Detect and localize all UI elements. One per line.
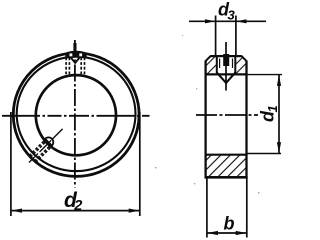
svg-text:b: b xyxy=(224,214,235,234)
d1 arrow top xyxy=(277,75,281,86)
bore top line + d1 extension xyxy=(205,73,247,75)
tapped hole opening arc at bore xyxy=(45,137,53,145)
top-left chamfer xyxy=(205,56,211,62)
b arrow left xyxy=(207,231,218,235)
second tapped hole axis centerline (225 deg) xyxy=(29,129,63,163)
screw hole left wall xyxy=(216,56,218,73)
ring outline left edge xyxy=(204,61,206,178)
bore bottom line + d1 extension xyxy=(205,154,247,156)
d3 arrow left (outside) xyxy=(205,19,216,23)
ring bottom face xyxy=(205,176,248,179)
horizontal centerline xyxy=(2,115,150,117)
upper section block hatching right xyxy=(235,56,246,74)
ring top face xyxy=(210,55,241,57)
d3 arrow right (outside) xyxy=(236,19,247,23)
hidden thread hole lines (top) xyxy=(65,57,67,74)
d2 arrow left xyxy=(11,209,22,213)
d1 dimension line xyxy=(278,75,280,154)
d2 extension line right xyxy=(139,112,141,216)
b dimension line xyxy=(207,232,247,234)
b extension line left xyxy=(206,178,208,238)
tapped hole hidden lines (225 deg) xyxy=(36,148,51,163)
top-right chamfer xyxy=(241,56,247,62)
set screw head mass at rim xyxy=(65,51,86,57)
screw cone point (section) xyxy=(217,73,236,83)
svg-text:3: 3 xyxy=(228,8,236,23)
svg-text:1: 1 xyxy=(265,105,280,112)
d2 arrow right xyxy=(129,209,140,213)
screw thread line left xyxy=(219,59,221,69)
section centerline horizontal xyxy=(196,114,258,116)
screw slot (section) xyxy=(223,54,229,66)
screw hole right wall xyxy=(234,56,236,73)
d1 arrow bottom xyxy=(277,142,281,153)
d3 dimension line xyxy=(189,20,266,22)
screw axis centerline vertical xyxy=(225,42,227,91)
bore circle d1 xyxy=(36,75,116,155)
svg-text:2: 2 xyxy=(73,198,82,214)
upper section block hatching left xyxy=(206,56,217,74)
b arrow right xyxy=(236,231,247,235)
chamfer circle xyxy=(17,57,136,171)
screw thread line right xyxy=(232,59,234,69)
b extension line right xyxy=(246,178,248,238)
set screw cone point (front view) xyxy=(71,58,80,63)
d2 extension line left xyxy=(10,112,12,216)
d3 extension line left xyxy=(215,16,217,57)
outer circle xyxy=(13,53,139,176)
lower section block hatching xyxy=(206,155,247,177)
label d1 (rotated) xyxy=(258,105,281,122)
ring outline right edge xyxy=(245,61,247,178)
scan specks xyxy=(155,167,156,168)
d2 dimension line xyxy=(11,210,140,212)
set screw slot (front view, top) xyxy=(73,43,76,53)
vertical centerline xyxy=(74,40,76,188)
d3 extension line right xyxy=(235,16,237,57)
